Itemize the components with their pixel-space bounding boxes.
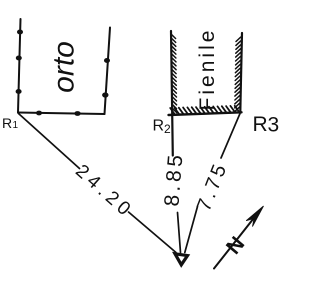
svg-text:Fienile: Fienile <box>196 28 219 111</box>
svg-text:R: R <box>253 113 268 136</box>
svg-text:R: R <box>153 118 165 135</box>
svg-text:3: 3 <box>268 114 280 137</box>
svg-text:R: R <box>2 115 12 131</box>
svg-text:1: 1 <box>13 120 19 131</box>
svg-text:8.85: 8.85 <box>160 151 187 208</box>
svg-text:2: 2 <box>164 122 171 136</box>
svg-text:orto: orto <box>48 41 81 93</box>
